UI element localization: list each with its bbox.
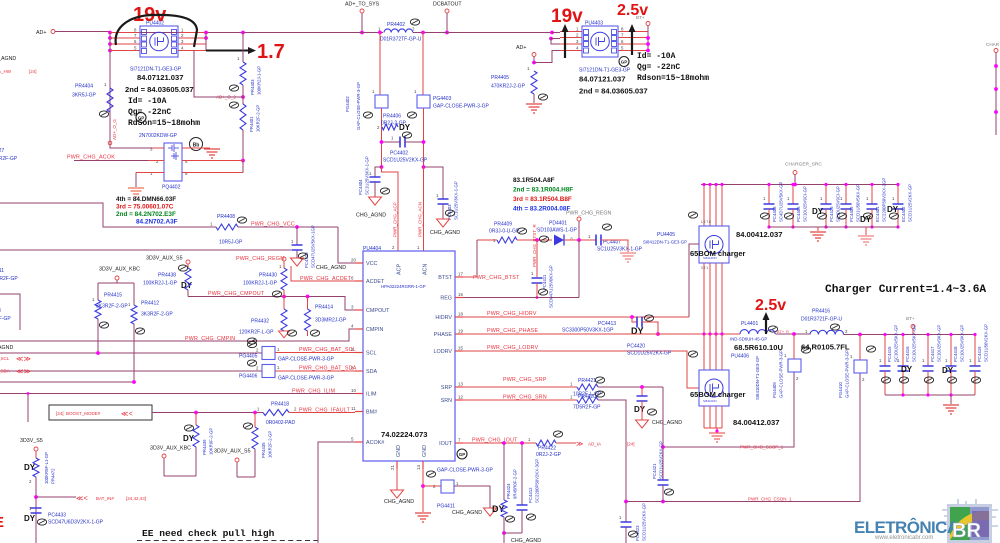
svg-text:3K3R2F-2-GP: 3K3R2F-2-GP — [141, 312, 173, 318]
svg-text:Qg= -22nC: Qg= -22nC — [128, 108, 171, 117]
svg-text:PG4409: PG4409 — [772, 382, 777, 398]
capacitor PC4417 SC10U25V9KX-GP — [927, 335, 929, 367]
svg-text:PC4420: PC4420 — [627, 344, 645, 350]
wire AD+ to PU4402 bus — [55, 31, 110, 33]
svg-text:1: 1 — [570, 382, 573, 387]
resistor PR4412 — [131, 305, 137, 324]
svg-text:17: 17 — [458, 272, 463, 277]
svg-text:CHG_AGND: CHG_AGND — [511, 538, 541, 543]
svg-text:2F-GP: 2F-GP — [0, 316, 11, 322]
svg-text:7: 7 — [134, 33, 137, 38]
svg-text:GAP-CLOSE-PWR-3-GP: GAP-CLOSE-PWR-3-GP — [433, 104, 490, 110]
svg-text:15: 15 — [458, 346, 463, 351]
svg-text:PC4413: PC4413 — [598, 321, 616, 327]
svg-text:SCD047U25V0KX-GP: SCD047U25V0KX-GP — [549, 265, 554, 308]
svg-text:3D3V_S5: 3D3V_S5 — [20, 438, 43, 444]
svg-text:120KR2F-L-GP: 120KR2F-L-GP — [239, 330, 274, 336]
pin 11 BM# — [355, 411, 363, 413]
svg-text:[24]: [24] — [627, 442, 635, 447]
svg-text:SC2200P50V2KX-3GP: SC2200P50V2KX-3GP — [535, 459, 540, 503]
svg-text:[24,42,43]: [24,42,43] — [126, 496, 146, 501]
svg-text:74.02224.073: 74.02224.073 — [381, 430, 427, 439]
svg-text:1: 1 — [237, 56, 240, 61]
svg-text:PR4405: PR4405 — [491, 75, 509, 81]
svg-text:PR4404: PR4404 — [75, 84, 93, 90]
svg-text:_SCL: _SCL — [0, 356, 10, 361]
svg-text:3D3V_AUX_KBC: 3D3V_AUX_KBC — [99, 267, 140, 273]
svg-text:SI8412DN-T1-GE3-GP: SI8412DN-T1-GE3-GP — [643, 240, 687, 245]
svg-text:1.7: 1.7 — [257, 41, 285, 63]
transistor PU4405 SI8412DN-T1-GE3-GP — [703, 185, 705, 227]
svg-text:2: 2 — [294, 407, 297, 412]
svg-text:PU4406: PU4406 — [731, 354, 749, 360]
svg-text:SCL: SCL — [366, 351, 377, 357]
wire VCC to chip pin20 — [338, 227, 355, 263]
svg-text:GAP-CLOSE-PWR-3-GP: GAP-CLOSE-PWR-3-GP — [779, 350, 784, 398]
svg-text:1: 1 — [291, 239, 294, 244]
svg-text:1: 1 — [922, 358, 925, 363]
wire VCC feed from left edge — [0, 203, 216, 227]
svg-text:1: 1 — [104, 82, 107, 87]
svg-text:PWR_CHG_CSON_1: PWR_CHG_CSON_1 — [748, 497, 792, 502]
svg-text:BTST: BTST — [438, 275, 452, 281]
svg-text:SI8410DN-T1-GE3-GP: SI8410DN-T1-GE3-GP — [755, 356, 760, 400]
net PWR_CHG_ACN — [423, 167, 425, 251]
svg-text:GAP-CLOSE-PWR-3-GP: GAP-CLOSE-PWR-3-GP — [356, 82, 361, 130]
svg-text:0R2J-2-GP: 0R2J-2-GP — [536, 452, 562, 458]
svg-text:1: 1 — [820, 196, 823, 201]
svg-text:SCD1U25V2KX-GP: SCD1U25V2KX-GP — [659, 441, 664, 479]
svg-text:BT+_R: BT+_R — [777, 330, 789, 334]
node junctions left column x=110 — [108, 31, 112, 35]
resistor PR4415 — [95, 300, 101, 319]
wire right sense column — [422, 33, 424, 96]
svg-text:PC4412: PC4412 — [528, 487, 533, 503]
pin 12 SRN — [455, 399, 463, 401]
svg-text:10KR2F-2-GP: 10KR2F-2-GP — [268, 431, 273, 458]
svg-text:0R3J-0-U-GP: 0R3J-0-U-GP — [489, 229, 520, 235]
pin 18 HIDRV — [455, 316, 463, 318]
svg-text:AD+_O_G: AD+_O_G — [112, 119, 117, 140]
svg-text:1: 1 — [576, 27, 579, 32]
pin 4 CMPIN — [355, 328, 363, 330]
svg-text:4: 4 — [181, 46, 184, 51]
svg-text:3rd = 75.00601.07C: 3rd = 75.00601.07C — [116, 204, 174, 211]
svg-text:2: 2 — [29, 479, 32, 484]
svg-text:5: 5 — [621, 46, 624, 51]
logo ELETRONICA BR watermark — [854, 499, 998, 543]
svg-text:1: 1 — [279, 264, 282, 269]
svg-text:BT+: BT+ — [906, 316, 915, 321]
svg-text:CHG_AGND: CHG_AGND — [430, 230, 460, 236]
svg-text:1: 1 — [92, 297, 95, 302]
svg-text:AD+: AD+ — [36, 30, 46, 36]
svg-text:IOUT: IOUT — [439, 441, 453, 447]
svg-text:BM#: BM# — [366, 410, 377, 416]
ground chip pin14 + gap PG4411 — [422, 469, 424, 512]
svg-text:SCD47U6D3V2KX-1-GP: SCD47U6D3V2KX-1-GP — [48, 520, 104, 526]
svg-text:84.00412.037: 84.00412.037 — [733, 418, 779, 427]
svg-text:PU4405: PU4405 — [657, 232, 675, 238]
svg-text:PWR_CHG_CSOP_1: PWR_CHG_CSOP_1 — [740, 445, 784, 450]
wire divider column x=243 — [241, 31, 245, 35]
svg-text:PWR_CHG_ACN: PWR_CHG_ACN — [418, 202, 423, 237]
svg-text:10R5J-GP: 10R5J-GP — [219, 240, 243, 246]
svg-text:AD+: AD+ — [516, 45, 526, 51]
svg-text:PR4424: PR4424 — [506, 483, 511, 499]
svg-text:19v: 19v — [551, 6, 583, 27]
capacitor PC4416 SC10U25V5KX-GP — [902, 335, 904, 367]
svg-text:1: 1 — [391, 136, 394, 141]
svg-text:PR4430: PR4430 — [259, 273, 277, 279]
svg-text:PL4401: PL4401 — [741, 321, 758, 327]
svg-text:2.5v: 2.5v — [617, 2, 648, 19]
capacitor PC4412 SC2200P50V2KX-3GP column — [521, 443, 523, 505]
svg-text:GND: GND — [396, 445, 402, 457]
svg-text:PC4419: PC4419 — [977, 346, 982, 362]
svg-text:PR4408: PR4408 — [217, 214, 235, 220]
svg-text:6: 6 — [621, 39, 624, 44]
svg-text:8: 8 — [621, 27, 624, 32]
svg-text:CHG_AGND: CHG_AGND — [652, 420, 682, 426]
svg-text:1: 1 — [945, 358, 948, 363]
svg-text:GND: GND — [422, 445, 428, 457]
svg-text:1: 1 — [128, 302, 131, 307]
svg-text:1: 1 — [805, 329, 808, 334]
svg-text:2nd = 83.1R004.H8F: 2nd = 83.1R004.H8F — [513, 187, 573, 194]
svg-text:9R45R0F-2-GP: 9R45R0F-2-GP — [513, 469, 518, 499]
svg-text:3rd = 83.1R504.B8F: 3rd = 83.1R504.B8F — [513, 196, 572, 203]
svg-text:1: 1 — [414, 89, 417, 94]
svg-text:1: 1 — [257, 407, 260, 412]
svg-text:HIDRV: HIDRV — [435, 315, 452, 321]
svg-text:PWR_CHG_PHASE: PWR_CHG_PHASE — [487, 328, 538, 334]
svg-text:EE need check pull high: EE need check pull high — [142, 528, 275, 539]
ground below PR4405 — [533, 94, 535, 103]
svg-text:≪≫: ≪≫ — [16, 356, 31, 363]
svg-text:2: 2 — [845, 329, 848, 334]
svg-text:PR4409: PR4409 — [494, 222, 512, 228]
svg-text:470KR2J-2-GP: 470KR2J-2-GP — [491, 84, 526, 90]
svg-text:PR4403: PR4403 — [250, 79, 255, 95]
svg-text:PR4406: PR4406 — [383, 114, 401, 120]
svg-text:2nd = 84.03605.037: 2nd = 84.03605.037 — [125, 85, 194, 94]
svg-text:3: 3 — [150, 147, 153, 152]
svg-text:100KR5F-L1-GP: 100KR5F-L1-GP — [44, 452, 49, 484]
pin 17 BTST — [455, 276, 463, 278]
svg-text:PC4402: PC4402 — [390, 151, 408, 157]
wire left pin column PU4402 — [109, 33, 111, 149]
capacitor PC4406 SC10U25V9CI-GP — [792, 185, 794, 205]
ground rail 1 — [817, 227, 819, 231]
svg-text:1: 1 — [372, 89, 375, 94]
svg-text:64.R0105.7FL: 64.R0105.7FL — [801, 343, 850, 352]
svg-text:ACDET: ACDET — [366, 279, 385, 285]
svg-text:CMPIN: CMPIN — [366, 327, 383, 333]
svg-text:D01R3721F-GP-U: D01R3721F-GP-U — [801, 317, 843, 323]
pin 6 ACDET — [355, 280, 363, 282]
svg-text:LODRV: LODRV — [434, 349, 453, 355]
transistor PU4406 SI8410DN-T1-GE3-GP — [702, 332, 705, 335]
svg-text:PR4421: PR4421 — [578, 378, 596, 384]
svg-text:8: 8 — [134, 28, 137, 33]
ground rail 2 — [865, 227, 867, 235]
svg-text:AD_IA: AD_IA — [588, 442, 601, 447]
svg-text:GAP-CLOSE-PWR-3-GP: GAP-CLOSE-PWR-3-GP — [437, 468, 494, 474]
svg-text:2nd = 84.2N702.E3F: 2nd = 84.2N702.E3F — [116, 211, 176, 218]
svg-text:100KR2J-1-GP: 100KR2J-1-GP — [257, 66, 262, 95]
svg-text:PWR_CHG_ACP: PWR_CHG_ACP — [393, 202, 398, 237]
svg-text:411: 411 — [0, 268, 4, 274]
svg-text:3D3V_AUX_KBC: 3D3V_AUX_KBC — [150, 446, 191, 452]
pin 13 SRP — [455, 386, 463, 388]
svg-text:DY: DY — [24, 463, 36, 472]
pin 5 ACOK# — [355, 441, 363, 443]
wire cut stub left — [0, 294, 20, 330]
svg-text:PR4438: PR4438 — [158, 273, 176, 279]
svg-text:100KR2J-1-GP: 100KR2J-1-GP — [243, 281, 278, 287]
svg-text:2: 2 — [377, 125, 380, 130]
svg-text:1: 1 — [969, 358, 972, 363]
svg-text:GP: GP — [621, 59, 628, 64]
svg-text:[24]: [24] — [29, 69, 37, 74]
svg-text:2nd = 84.03605.037: 2nd = 84.03605.037 — [579, 87, 648, 96]
svg-text:13: 13 — [458, 382, 463, 387]
ground chip pin21 — [396, 469, 398, 490]
svg-text:1: 1 — [277, 365, 280, 370]
svg-text:2: 2 — [796, 376, 799, 381]
svg-text:SRP: SRP — [441, 385, 452, 391]
svg-text:CHG_AGND: CHG_AGND — [316, 265, 346, 271]
svg-text:2: 2 — [256, 366, 259, 371]
wire dashed EE box — [137, 540, 320, 542]
svg-text:PWR_CHG_REGN: PWR_CHG_REGN — [566, 211, 611, 217]
svg-text:DY: DY — [942, 366, 954, 375]
svg-text:7D5R2F-GP: 7D5R2F-GP — [573, 405, 601, 411]
svg-text:HPA02224RGRR-1-GP: HPA02224RGRR-1-GP — [381, 284, 426, 289]
net PWR_CHG_BAT_SCL + gap PG4405 — [0, 352, 262, 354]
svg-text:10KR9F-2-GP: 10KR9F-2-GP — [209, 428, 214, 455]
svg-text:DY: DY — [812, 207, 824, 216]
svg-text:1: 1 — [619, 515, 622, 520]
svg-text:Charger Current=1.4~3.6A: Charger Current=1.4~3.6A — [825, 284, 986, 296]
svg-text:CHARGER_SRC: CHARGER_SRC — [785, 162, 822, 168]
svg-text:SCD1U25V2KX-GP: SCD1U25V2KX-GP — [908, 184, 913, 222]
svg-text:19: 19 — [458, 329, 463, 334]
wire main input bus y=32.5 — [110, 33, 351, 39]
node junctions right of PU4402 — [204, 31, 208, 35]
svg-text:RdSon=15~18mohm: RdSon=15~18mohm — [128, 119, 200, 128]
svg-text:SCD1U50V2KX-GP: SCD1U50V2KX-GP — [984, 324, 989, 362]
svg-text:3 2 1: 3 2 1 — [701, 266, 708, 270]
svg-text:6: 6 — [185, 171, 188, 176]
svg-text:BR: BR — [952, 520, 981, 542]
svg-text:PWR_CHG_HIDRV: PWR_CHG_HIDRV — [487, 311, 537, 317]
net REG row — [463, 297, 579, 299]
wire BTST_R node — [477, 239, 552, 241]
wire below gaps — [381, 108, 383, 167]
net PWR_CHG_ACP — [382, 167, 399, 251]
svg-text:84.00412.037: 84.00412.037 — [736, 230, 782, 239]
svg-text:SCD1U25V2KX-GP: SCD1U25V2KX-GP — [627, 351, 672, 357]
capacitor EC4401 SC2200P50V2KX-2GP — [871, 185, 873, 205]
svg-text:PG4411: PG4411 — [437, 504, 455, 510]
svg-text:≪≫: ≪≫ — [16, 369, 31, 376]
svg-text:1 6 7 8: 1 6 7 8 — [701, 220, 711, 224]
svg-text:A_HW: A_HW — [0, 69, 12, 74]
capacitor PC4403 SC1U25V3KX-1-GP — [424, 167, 444, 199]
svg-text:1: 1 — [787, 196, 790, 201]
wire CHARGER_SRC bus — [701, 184, 898, 186]
svg-text:2N7002KDW-GP: 2N7002KDW-GP — [139, 133, 178, 139]
svg-text:4: 4 — [576, 46, 579, 51]
svg-text:SC10U25V9KX-GP: SC10U25V9KX-GP — [960, 325, 965, 362]
net PWR_CHG_CSOP_1 — [663, 372, 794, 447]
annotation arrow to 1.7 — [206, 50, 248, 52]
svg-text:PC4408: PC4408 — [772, 206, 777, 222]
svg-text:1: 1 — [417, 245, 420, 250]
svg-text:1: 1 — [369, 171, 372, 176]
wire PR4404 down to PQ4402 pin3 / net stub — [110, 112, 152, 148]
svg-text:14: 14 — [416, 465, 421, 470]
ground below PQ4402 pin1 — [135, 173, 137, 188]
svg-text:SC4D7U25V5KX-GP: SC4D7U25V5KX-GP — [779, 182, 784, 222]
svg-text:100KR2J-1-GP: 100KR2J-1-GP — [143, 281, 178, 287]
svg-text:Rdson=15~18mohm: Rdson=15~18mohm — [637, 74, 709, 83]
pin 20 VCC — [355, 262, 363, 264]
svg-text:PG4405: PG4405 — [239, 354, 258, 360]
svg-text:PD4401: PD4401 — [549, 221, 567, 227]
svg-text:5R2F-GP: 5R2F-GP — [0, 156, 18, 162]
svg-text:1: 1 — [840, 196, 843, 201]
wire aux row y=382 — [0, 381, 134, 383]
svg-text:65BOM charger: 65BOM charger — [690, 249, 746, 258]
svg-text:6: 6 — [351, 276, 354, 281]
svg-text:PR4439: PR4439 — [202, 439, 207, 455]
svg-text:1: 1 — [897, 358, 900, 363]
svg-text:CHG_AGND: CHG_AGND — [452, 510, 482, 516]
pin 19 PHASE — [455, 333, 463, 335]
pin 3 CMPOUT — [355, 309, 363, 311]
svg-text:PC4411: PC4411 — [542, 274, 547, 290]
svg-text:AD+_TO_SYS: AD+_TO_SYS — [345, 2, 380, 8]
svg-text:BAT_IN#: BAT_IN# — [96, 496, 114, 501]
svg-text:PR4412: PR4412 — [141, 301, 159, 307]
svg-text:PR4402: PR4402 — [387, 22, 405, 28]
svg-text:_SDA: _SDA — [0, 369, 10, 374]
svg-text:PG4410: PG4410 — [838, 382, 843, 398]
svg-text:1: 1 — [588, 234, 591, 239]
capacitor PC4415 SC10U25V5KX-GP — [884, 335, 886, 367]
pin 8 SDA — [355, 370, 363, 372]
svg-text:3D3V_AUX_S5: 3D3V_AUX_S5 — [146, 256, 183, 262]
svg-text:83.1R504.A8F: 83.1R504.A8F — [513, 177, 555, 184]
svg-text:2: 2 — [256, 348, 259, 353]
svg-text:20: 20 — [351, 258, 356, 263]
svg-text:Id= -10A: Id= -10A — [128, 97, 167, 106]
svg-text:4th = 84.DMN66.03F: 4th = 84.DMN66.03F — [116, 196, 176, 203]
wire BT+ bank bottom rail — [885, 394, 975, 396]
port BOOST_MODE# box — [49, 405, 152, 420]
svg-text:PWR_CHG_BTST: PWR_CHG_BTST — [473, 275, 520, 281]
svg-text:GP: GP — [459, 452, 466, 457]
wire pin6 column — [242, 161, 244, 173]
svg-text:EC4402: EC4402 — [901, 206, 906, 222]
svg-text:7: 7 — [458, 438, 461, 443]
svg-text:DY: DY — [860, 215, 872, 224]
svg-text:PC4404: PC4404 — [358, 179, 363, 195]
svg-text:PR4432: PR4432 — [251, 319, 269, 325]
svg-text:PR4472: PR4472 — [51, 468, 56, 484]
wire output bus to BT+ — [844, 334, 975, 336]
svg-text:84.07121.037: 84.07121.037 — [579, 75, 625, 84]
svg-text:4th = 83.2R004.08F: 4th = 83.2R004.08F — [513, 206, 570, 213]
wire from PU4402 pin4 down to AD+_O_2 — [194, 51, 243, 98]
capacitor PC4404 SC1U25V3KX-1-GP — [375, 167, 382, 177]
svg-text:ACOK#: ACOK# — [366, 440, 384, 446]
svg-text:ILIM: ILIM — [366, 392, 377, 398]
svg-text:3: 3 — [576, 39, 579, 44]
svg-text:SCD47U25V5KX-1GP: SCD47U25V5KX-1GP — [311, 225, 316, 268]
svg-text:SRN: SRN — [441, 398, 452, 404]
label PU4403 part info — [619, 57, 629, 67]
svg-text:SCD1U25V2KX-GP: SCD1U25V2KX-GP — [642, 503, 647, 541]
svg-text:PR4416: PR4416 — [812, 309, 830, 315]
svg-text:DY: DY — [399, 123, 411, 132]
svg-text:21: 21 — [390, 465, 395, 470]
capacitor PC4426 SC10U25V9CI-GP — [825, 185, 827, 205]
capacitor PC4421 SCD1U25V2KX-GP — [661, 445, 665, 449]
svg-text:www.eletronicabr.com: www.eletronicabr.com — [874, 535, 933, 541]
node ACP/ACN junctions — [380, 165, 384, 169]
pin 7 IOUT — [455, 442, 463, 444]
svg-text:Id= -10A: Id= -10A — [637, 52, 676, 61]
wire REG net vertical — [578, 240, 580, 298]
svg-text:_AGND: _AGND — [0, 56, 16, 62]
svg-text:≪<: ≪< — [76, 496, 88, 503]
svg-text:PG4406: PG4406 — [239, 374, 258, 380]
svg-text:1: 1 — [527, 66, 530, 71]
capacitor PC4409 SCD1U50V5KX-GP — [845, 185, 847, 205]
capacitor PC4423 SCD1U25V2KX-GP — [624, 500, 628, 504]
capacitor PC4411 SCD047U25V0KX-GP (BTST) — [536, 240, 538, 277]
svg-text:65BOM charger: 65BOM charger — [690, 390, 746, 399]
capacitor PC4408 SC4D7U25V5KX-GP — [768, 185, 770, 205]
ground BT+ bank — [950, 395, 952, 404]
svg-text:3KR5J-GP: 3KR5J-GP — [72, 93, 97, 99]
svg-text:KR2F-GP: KR2F-GP — [0, 276, 18, 282]
wire bus through sense resistor — [351, 32, 552, 34]
svg-text:1: 1 — [210, 222, 213, 227]
svg-text:PC4417: PC4417 — [930, 346, 935, 362]
svg-text:3: 3 — [0, 308, 1, 314]
svg-text:ACN: ACN — [423, 264, 429, 275]
resistor PR4424 9R45R0F-2-GP column — [503, 443, 505, 500]
ground below PC4407 — [620, 253, 636, 262]
svg-text:SC10U25V9CI-GP: SC10U25V9CI-GP — [803, 186, 808, 222]
ground below PU4406 — [709, 433, 725, 442]
svg-text:1: 1 — [436, 193, 439, 198]
svg-text:5: 5 — [185, 159, 188, 164]
net PWR_CHG_IFAULT# row — [152, 412, 263, 414]
net PWR_CHG_BAT_SDA + gap PG4406 — [0, 370, 262, 372]
svg-text:SC10U25V9KX-GP: SC10U25V9KX-GP — [937, 325, 942, 362]
svg-text:84.2N702.A3F: 84.2N702.A3F — [136, 219, 178, 226]
wire rail from left edge y=250 — [0, 249, 291, 251]
svg-text:PG4402: PG4402 — [345, 96, 350, 112]
svg-text:PC4418: PC4418 — [953, 346, 958, 362]
svg-text:1: 1 — [784, 353, 787, 358]
